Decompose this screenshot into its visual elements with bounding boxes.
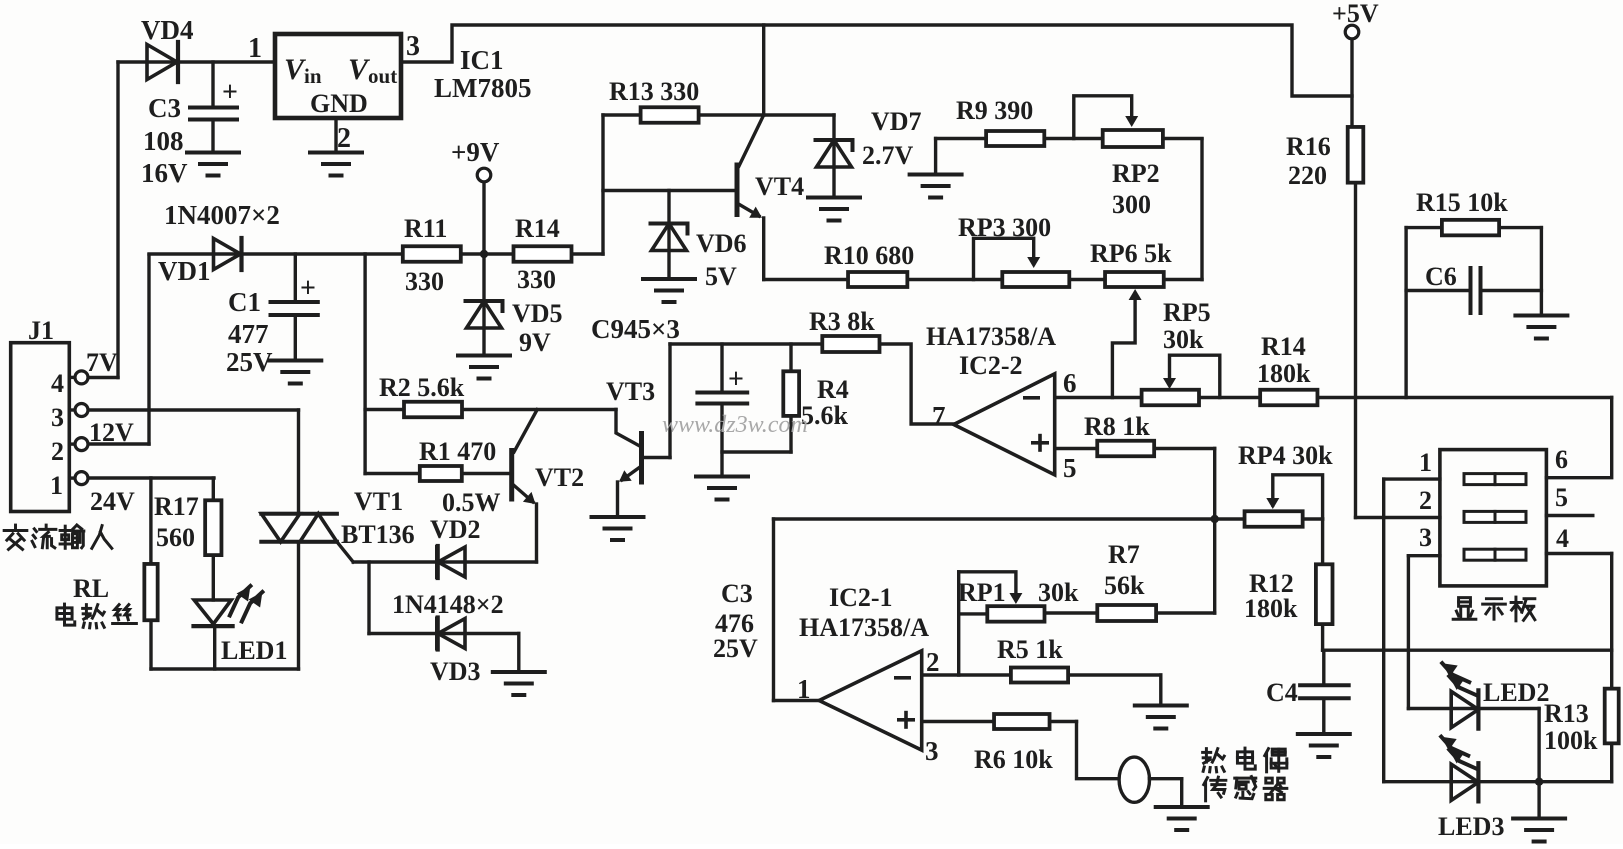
svg-text:RP2: RP2 — [1112, 159, 1160, 188]
svg-text:2: 2 — [51, 437, 64, 466]
svg-text:R8 1k: R8 1k — [1084, 412, 1150, 441]
svg-text:3: 3 — [406, 31, 420, 62]
svg-text:+9V: +9V — [451, 137, 500, 167]
svg-text:+: + — [728, 364, 744, 395]
svg-text:LED3: LED3 — [1438, 812, 1504, 841]
svg-text:C6: C6 — [1425, 262, 1457, 291]
svg-text:R16: R16 — [1286, 132, 1331, 161]
svg-text:R3 8k: R3 8k — [809, 307, 875, 336]
svg-text:220: 220 — [1288, 161, 1327, 190]
svg-text:12V: 12V — [89, 418, 134, 447]
svg-text:VT1: VT1 — [354, 487, 403, 516]
svg-text:LED2: LED2 — [1483, 678, 1549, 707]
svg-text:IC2-2: IC2-2 — [959, 351, 1023, 380]
svg-text:R2 5.6k: R2 5.6k — [379, 373, 465, 402]
svg-text:VT2: VT2 — [535, 463, 584, 492]
svg-text:C3: C3 — [721, 579, 753, 608]
svg-text:5V: 5V — [705, 262, 737, 291]
svg-text:RP6 5k: RP6 5k — [1090, 239, 1172, 268]
svg-text:GND: GND — [310, 89, 368, 118]
svg-text:6: 6 — [1063, 368, 1077, 398]
svg-text:+: + — [300, 273, 316, 304]
svg-text:RP4 30k: RP4 30k — [1238, 441, 1333, 470]
svg-text:HA17358/A: HA17358/A — [799, 613, 929, 642]
svg-text:1: 1 — [50, 471, 63, 500]
svg-text:VD2: VD2 — [430, 515, 481, 544]
svg-text:RP5: RP5 — [1163, 298, 1211, 327]
svg-text:25V: 25V — [713, 634, 758, 663]
svg-text:560: 560 — [156, 523, 195, 552]
svg-text:5.6k: 5.6k — [801, 401, 849, 430]
svg-text:RL: RL — [73, 574, 109, 603]
svg-text:+5V: +5V — [1332, 0, 1379, 28]
svg-text:30k: 30k — [1038, 578, 1079, 607]
svg-text:4: 4 — [51, 369, 64, 398]
svg-text:6: 6 — [1555, 445, 1568, 474]
svg-text:180k: 180k — [1257, 359, 1311, 388]
svg-text:330: 330 — [517, 265, 556, 294]
svg-text:24V: 24V — [90, 487, 135, 516]
svg-text:R4: R4 — [817, 375, 849, 404]
svg-text:5: 5 — [1063, 453, 1077, 483]
svg-text:+: + — [222, 77, 238, 108]
svg-text:C1: C1 — [228, 287, 261, 317]
svg-text:VD4: VD4 — [141, 15, 194, 45]
svg-text:1: 1 — [797, 674, 811, 704]
svg-text:C945×3: C945×3 — [591, 314, 680, 344]
svg-text:R13 330: R13 330 — [609, 77, 699, 106]
svg-text:R1 470: R1 470 — [419, 437, 496, 466]
svg-text:HA17358/A: HA17358/A — [926, 322, 1056, 351]
svg-text:LED1: LED1 — [221, 636, 287, 665]
svg-text:VD1: VD1 — [158, 256, 211, 286]
svg-text:IC2-1: IC2-1 — [829, 583, 893, 612]
svg-text:C4: C4 — [1266, 678, 1298, 707]
svg-text:VD7: VD7 — [871, 107, 922, 136]
svg-text:LM7805: LM7805 — [434, 73, 532, 103]
svg-text:RP1: RP1 — [958, 578, 1006, 607]
svg-text:2.7V: 2.7V — [862, 141, 914, 170]
svg-text:477: 477 — [228, 319, 269, 349]
svg-text:300: 300 — [1112, 190, 1151, 219]
svg-text:100k: 100k — [1544, 726, 1598, 755]
svg-text:2: 2 — [337, 123, 351, 154]
svg-text:9V: 9V — [519, 328, 551, 357]
svg-text:IC1: IC1 — [460, 45, 504, 75]
svg-text:R7: R7 — [1108, 540, 1140, 569]
svg-text:R9 390: R9 390 — [956, 96, 1033, 125]
svg-text:R5 1k: R5 1k — [997, 635, 1063, 664]
svg-text:VD3: VD3 — [430, 657, 481, 686]
svg-text:30k: 30k — [1163, 325, 1204, 354]
svg-text:VT4: VT4 — [755, 172, 804, 201]
svg-text:2: 2 — [926, 647, 940, 677]
svg-text:4: 4 — [1556, 524, 1569, 553]
svg-text:2: 2 — [1419, 486, 1432, 515]
svg-text:108: 108 — [143, 126, 184, 156]
svg-text:C3: C3 — [148, 93, 181, 123]
svg-text:R6 10k: R6 10k — [974, 745, 1053, 774]
svg-text:3: 3 — [51, 403, 64, 432]
svg-text:J1: J1 — [28, 316, 54, 345]
svg-text:1N4148×2: 1N4148×2 — [392, 590, 504, 619]
svg-text:25V: 25V — [226, 347, 273, 377]
svg-text:R11: R11 — [404, 214, 447, 243]
svg-text:7V: 7V — [86, 348, 118, 377]
svg-text:Vin: Vin — [284, 53, 322, 88]
svg-text:VD6: VD6 — [696, 229, 747, 258]
svg-text:R13: R13 — [1544, 699, 1589, 728]
svg-text:R15 10k: R15 10k — [1416, 188, 1508, 217]
svg-text:VT3: VT3 — [606, 377, 655, 406]
svg-text:R10 680: R10 680 — [824, 241, 914, 270]
svg-text:BT136: BT136 — [341, 520, 415, 549]
svg-text:1: 1 — [1419, 448, 1432, 477]
svg-text:R14: R14 — [1261, 332, 1306, 361]
svg-text:180k: 180k — [1244, 594, 1298, 623]
svg-text:3: 3 — [1419, 523, 1432, 552]
svg-text:1N4007×2: 1N4007×2 — [164, 200, 280, 230]
svg-text:Vout: Vout — [348, 53, 397, 88]
svg-text:RP3 300: RP3 300 — [958, 213, 1051, 242]
svg-text:7: 7 — [932, 401, 946, 431]
svg-text:3: 3 — [925, 736, 939, 766]
svg-text:1: 1 — [248, 33, 262, 64]
svg-text:R14: R14 — [515, 214, 560, 243]
svg-text:www.dz3w.com: www.dz3w.com — [662, 412, 808, 438]
svg-text:5: 5 — [1555, 483, 1568, 512]
svg-text:0.5W: 0.5W — [442, 488, 501, 517]
svg-text:56k: 56k — [1104, 571, 1145, 600]
svg-text:R17: R17 — [154, 492, 199, 521]
svg-text:330: 330 — [405, 267, 444, 296]
svg-text:VD5: VD5 — [512, 299, 563, 328]
svg-text:16V: 16V — [141, 158, 188, 188]
